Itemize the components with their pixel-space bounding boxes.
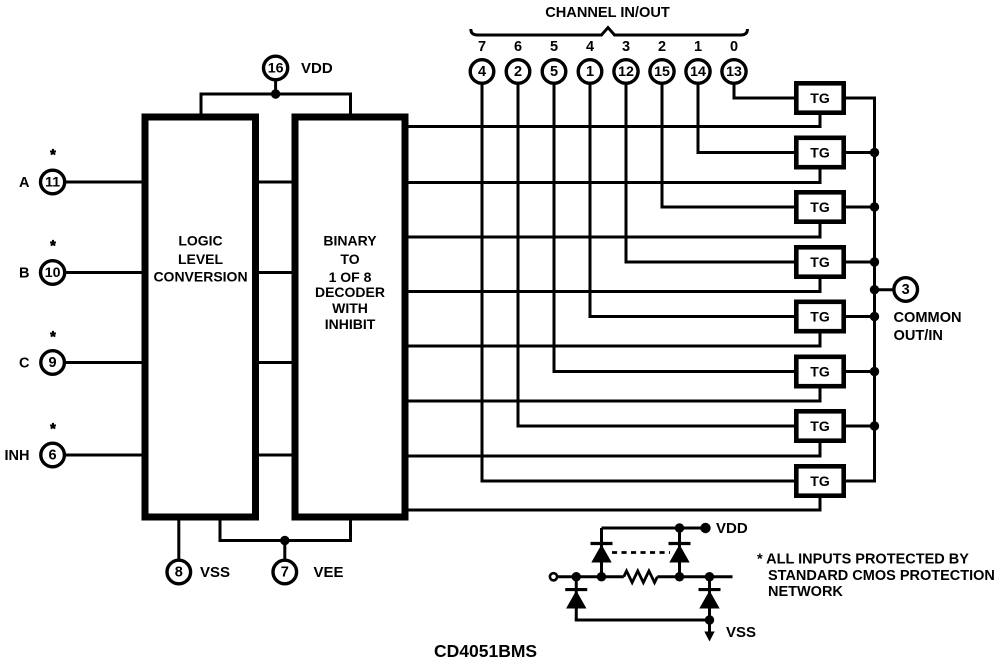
svg-text:6: 6 <box>49 448 57 464</box>
svg-text:TG: TG <box>810 199 830 215</box>
svg-text:7: 7 <box>281 565 289 581</box>
wire channel 3 from pin 12 to TG4 input <box>626 84 796 263</box>
wire decoder output 2 to TG3 control <box>407 223 821 237</box>
label VDD (pin 16) <box>301 60 333 77</box>
label channel 6 <box>514 39 522 55</box>
svg-text:2: 2 <box>514 64 522 80</box>
transmission gate TG7 <box>796 411 843 440</box>
label INH <box>5 448 30 464</box>
svg-text:A: A <box>19 175 30 191</box>
junction common bus at TG3 <box>870 202 879 211</box>
wire input rail right <box>657 575 732 578</box>
svg-text:STANDARD CMOS PROTECTION: STANDARD CMOS PROTECTION <box>768 568 995 584</box>
svg-text:11: 11 <box>45 175 60 191</box>
pin 12 (channel 3) <box>614 60 638 84</box>
wire B input to block U1 <box>66 271 144 274</box>
label channel 1 <box>694 39 702 55</box>
pin 15 (channel 2) <box>650 60 674 84</box>
wire decoder output 7 to TG8 control <box>407 497 821 510</box>
terminal VDD <box>700 523 710 533</box>
junction common bus at TG6 <box>870 367 879 376</box>
svg-text:TG: TG <box>810 418 830 434</box>
wire decoder output 1 to TG2 control <box>407 169 821 183</box>
wire channel 1 from pin 14 to TG2 input <box>698 84 796 153</box>
svg-text:0: 0 <box>730 39 738 55</box>
asterisk above pin 10 <box>50 240 56 246</box>
svg-text:4: 4 <box>478 64 486 80</box>
wire A between blocks <box>257 181 294 184</box>
pin 9 (C) <box>41 351 65 375</box>
junction VEE <box>280 536 289 545</box>
junction VDD rail <box>271 89 280 98</box>
wire INH input to block U1 <box>66 454 144 457</box>
junction protection VDD rail <box>675 523 684 532</box>
label B <box>19 266 29 282</box>
wire channel 5 from pin 5 to TG6 input <box>554 84 796 372</box>
svg-text:CD4051BMS: CD4051BMS <box>434 641 537 661</box>
pin 4 (channel 7) <box>470 60 494 84</box>
svg-text:3: 3 <box>902 282 910 298</box>
label VDD (protection) <box>716 520 748 537</box>
label channel 2 <box>658 39 666 55</box>
wire decoder output 3 to TG4 control <box>407 278 821 292</box>
wire TG1 output <box>845 97 875 100</box>
wire TG3 output <box>845 206 875 209</box>
wire to pin 3 <box>875 288 895 291</box>
label COMMON OUT/IN <box>894 310 962 344</box>
wire decoder output 4 to TG5 control <box>407 333 821 347</box>
label VEE (pin 7) <box>314 564 344 581</box>
diode D4 (VSS to line) <box>699 577 721 620</box>
label channel 7 <box>478 39 486 55</box>
svg-text:14: 14 <box>690 64 706 80</box>
wire channel 0 from pin 13 to TG1 input <box>734 84 796 99</box>
wire VDD rail to blocks <box>201 94 351 115</box>
svg-text:* ALL INPUTS PROTECTED BY: * ALL INPUTS PROTECTED BY <box>757 552 969 568</box>
junction common bus at TG7 <box>870 421 879 430</box>
svg-text:13: 13 <box>726 64 742 80</box>
wire channel 7 from pin 4 to TG8 input <box>482 84 796 482</box>
svg-text:TO: TO <box>340 251 359 267</box>
svg-text:VEE: VEE <box>314 564 344 581</box>
wire TG7 output <box>845 425 875 428</box>
svg-text:7: 7 <box>478 39 486 55</box>
wire channel 4 from pin 1 to TG5 input <box>590 84 796 317</box>
svg-text:12: 12 <box>618 64 634 80</box>
wire C between blocks <box>257 361 294 364</box>
wire VSS stub <box>177 520 180 561</box>
diode D2 (input to VDD) <box>669 528 691 577</box>
note ALL INPUTS PROTECTED <box>757 552 995 601</box>
wire VSS rail (protection) <box>575 619 710 622</box>
pin 10 (B) <box>41 261 65 285</box>
svg-text:5: 5 <box>550 39 558 55</box>
wire decoder output 0 to TG1 control <box>407 114 821 127</box>
wire TG8 output <box>845 480 875 483</box>
wire decoder output 5 to TG6 control <box>407 388 821 402</box>
svg-text:VSS: VSS <box>200 564 230 581</box>
svg-text:CHANNEL IN/OUT: CHANNEL IN/OUT <box>545 5 670 21</box>
asterisk above pin 9 <box>50 331 56 337</box>
transmission gate TG8 <box>796 466 843 495</box>
transmission gate TG6 <box>796 357 843 386</box>
pin 5 (channel 5) <box>542 60 566 84</box>
junction common bus at TG4 <box>870 257 879 266</box>
diode D3 (VSS to input) <box>565 577 587 620</box>
svg-text:B: B <box>19 266 29 282</box>
svg-text:NETWORK: NETWORK <box>768 584 843 600</box>
block U2 BINARY TO 1 OF 8 DECODER WITH INHIBIT <box>295 117 405 517</box>
wire VSS arrow <box>704 620 714 642</box>
transmission gate TG2 <box>796 138 843 167</box>
wire VEE stub <box>283 541 286 561</box>
svg-text:C: C <box>19 356 30 372</box>
label A <box>19 175 30 191</box>
junction protection VSS rail <box>705 615 714 624</box>
junction input rail <box>572 572 581 581</box>
wire C input to block U1 <box>66 361 144 364</box>
svg-text:1: 1 <box>694 39 702 55</box>
label VSS (protection) <box>726 624 756 641</box>
wire input rail left <box>557 575 624 578</box>
svg-text:TG: TG <box>810 90 830 106</box>
wire VEE bracket <box>220 520 351 541</box>
pin 8 VSS <box>167 560 191 584</box>
label channel 3 <box>622 39 630 55</box>
pin 7 VEE <box>273 560 297 584</box>
svg-text:4: 4 <box>586 39 594 55</box>
svg-text:10: 10 <box>45 265 61 281</box>
pin 2 (channel 6) <box>506 60 530 84</box>
svg-text:COMMON: COMMON <box>894 310 962 326</box>
junction input rail <box>705 572 714 581</box>
junction common bus at TG5 <box>870 312 879 321</box>
svg-text:TG: TG <box>810 309 830 325</box>
pin 11 (A) <box>41 170 65 194</box>
svg-text:VSS: VSS <box>726 624 756 641</box>
label CHANNEL IN/OUT <box>545 5 670 21</box>
junction common bus to pin 3 <box>870 285 879 294</box>
transmission gate TG1 <box>796 83 843 112</box>
svg-text:TG: TG <box>810 364 830 380</box>
svg-text:TG: TG <box>810 145 830 161</box>
junction input rail <box>597 572 606 581</box>
junction common bus at TG2 <box>870 148 879 157</box>
svg-text:TG: TG <box>810 254 830 270</box>
wire channel 2 from pin 15 to TG3 input <box>662 84 796 208</box>
svg-text:1 OF 8: 1 OF 8 <box>329 269 372 285</box>
pin 16 VDD <box>264 56 288 80</box>
svg-text:9: 9 <box>49 355 57 371</box>
svg-text:LOGIC: LOGIC <box>178 233 222 249</box>
svg-text:1: 1 <box>586 64 594 80</box>
wire A input to block U1 <box>66 181 144 184</box>
svg-text:2: 2 <box>658 39 666 55</box>
pin 6 (INH) <box>41 443 65 467</box>
resistor R (series input) <box>624 571 658 583</box>
svg-text:LEVEL: LEVEL <box>178 251 224 267</box>
svg-text:INH: INH <box>5 448 30 464</box>
diode D1 (input to VDD) <box>591 528 613 577</box>
svg-text:8: 8 <box>175 565 183 581</box>
terminal input (open circle) <box>550 573 557 580</box>
svg-text:VDD: VDD <box>716 520 748 537</box>
svg-text:BINARY: BINARY <box>323 233 377 249</box>
svg-text:OUT/IN: OUT/IN <box>894 328 943 344</box>
svg-text:DECODER: DECODER <box>315 284 385 300</box>
svg-text:CONVERSION: CONVERSION <box>153 269 247 285</box>
wire B between blocks <box>257 271 294 274</box>
wire TG4 output <box>845 261 875 264</box>
label VSS (pin 8) <box>200 564 230 581</box>
label channel 5 <box>550 39 558 55</box>
svg-text:3: 3 <box>622 39 630 55</box>
dashed gate link D1-D2 <box>612 551 670 554</box>
transmission gate TG5 <box>796 302 843 331</box>
wire TG5 output <box>845 315 875 318</box>
svg-text:16: 16 <box>268 61 284 77</box>
pin 3 COMMON OUT/IN <box>894 278 918 302</box>
pin 14 (channel 1) <box>686 60 710 84</box>
label channel 0 <box>730 39 738 55</box>
transmission gate TG3 <box>796 192 843 221</box>
wire TG2 output <box>845 151 875 154</box>
wire decoder output 6 to TG7 control <box>407 442 821 456</box>
label channel 4 <box>586 39 594 55</box>
pin 13 (channel 0) <box>722 60 746 84</box>
svg-text:WITH: WITH <box>332 300 368 316</box>
asterisk above pin 11 <box>50 149 56 155</box>
svg-text:15: 15 <box>654 64 670 80</box>
block U1 LOGIC LEVEL CONVERSION <box>145 117 256 517</box>
wire TG6 output <box>845 370 875 373</box>
pin 1 (channel 4) <box>578 60 602 84</box>
brace channel group <box>471 28 748 35</box>
transmission gate TG4 <box>796 247 843 276</box>
svg-text:6: 6 <box>514 39 522 55</box>
wire common bus <box>873 97 876 483</box>
wire INH between blocks <box>257 454 294 457</box>
junction input rail <box>675 572 684 581</box>
svg-text:VDD: VDD <box>301 60 333 77</box>
svg-text:5: 5 <box>550 64 558 80</box>
asterisk above pin 6 <box>50 423 56 429</box>
wire pin16 stub <box>274 80 277 94</box>
label CD4051BMS <box>434 641 537 661</box>
wire channel 6 from pin 2 to TG7 input <box>518 84 796 427</box>
svg-text:INHIBIT: INHIBIT <box>325 316 376 332</box>
wire VDD rail (protection) <box>602 527 708 530</box>
svg-text:TG: TG <box>810 473 830 489</box>
label C <box>19 356 30 372</box>
